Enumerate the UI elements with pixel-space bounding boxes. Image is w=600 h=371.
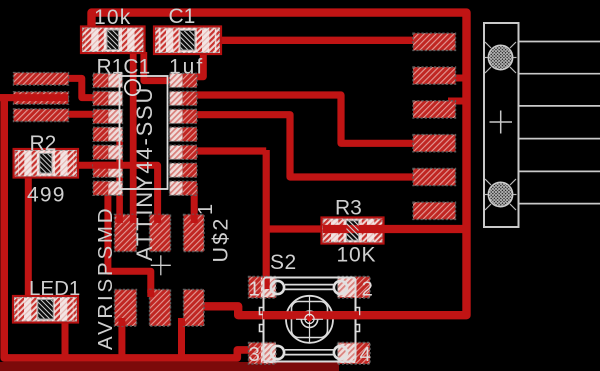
svg-text:1: 1 xyxy=(195,204,217,215)
svg-text:AVRISPSMD: AVRISPSMD xyxy=(94,206,117,350)
svg-text:1uf: 1uf xyxy=(169,56,204,79)
svg-text:R3: R3 xyxy=(335,197,362,220)
svg-text:1: 1 xyxy=(249,278,260,301)
svg-text:2: 2 xyxy=(362,278,373,301)
svg-text:499: 499 xyxy=(27,184,66,207)
svg-text:U$2: U$2 xyxy=(209,216,233,262)
svg-text:C1: C1 xyxy=(169,5,196,28)
svg-text:R2: R2 xyxy=(30,132,57,155)
svg-text:10k: 10k xyxy=(94,6,131,29)
svg-text:10K: 10K xyxy=(337,244,377,267)
svg-text:S2: S2 xyxy=(270,251,297,274)
svg-text:LED1: LED1 xyxy=(29,277,80,300)
svg-text:4: 4 xyxy=(360,343,371,366)
svg-text:ATTINY44-SSU: ATTINY44-SSU xyxy=(132,86,157,261)
svg-text:R1C1: R1C1 xyxy=(97,56,151,79)
svg-text:3: 3 xyxy=(249,343,260,366)
